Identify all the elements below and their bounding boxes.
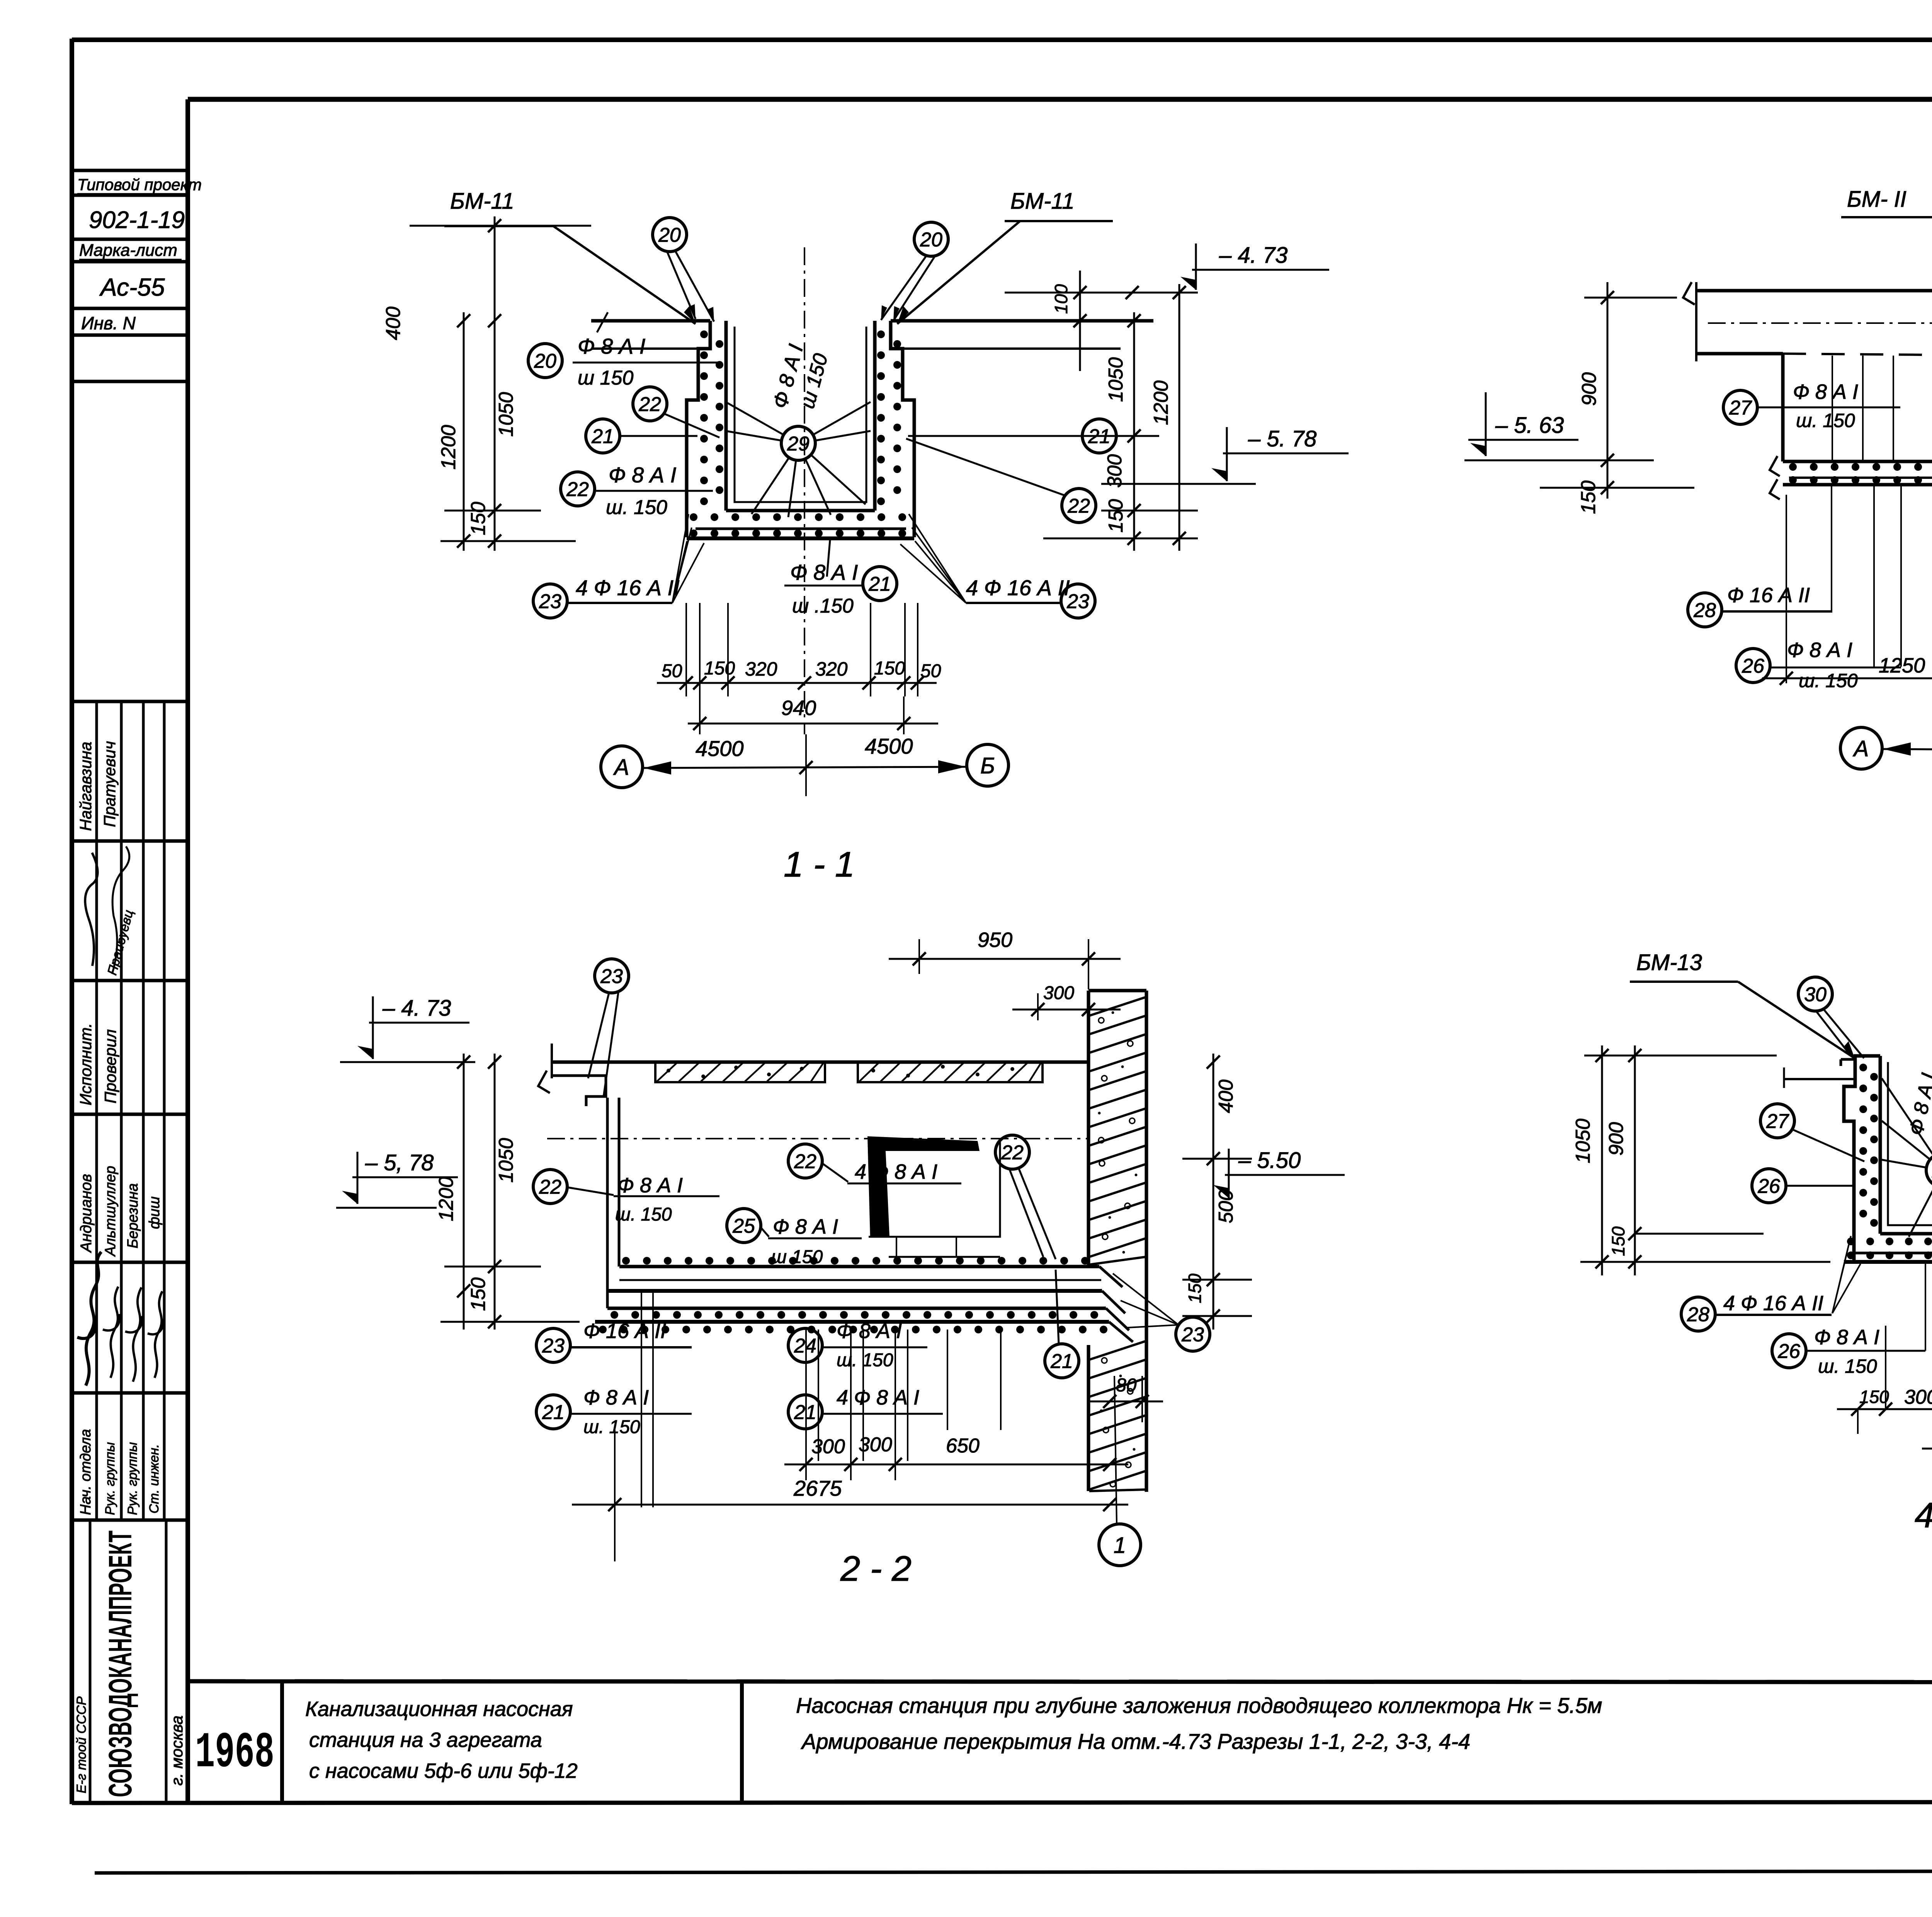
2-2 left ledge profile — [552, 1076, 606, 1106]
1-1 dim chain right 1050/300/150 — [1133, 312, 1135, 551]
outer border top — [72, 37, 1932, 42]
svg-text:Ас-55: Ас-55 — [99, 273, 165, 301]
svg-text:26: 26 — [1742, 655, 1764, 678]
4-4 dim 950 with axis 1 — [1922, 1448, 1932, 1450]
2-2 hatched precast strip A — [655, 1061, 825, 1082]
svg-text:Ф 16 А II: Ф 16 А II — [583, 1319, 666, 1343]
2-2 dots in lower band — [611, 1311, 618, 1319]
1-1 left level line at slab bottom — [440, 540, 576, 542]
svg-text:21: 21 — [542, 1401, 565, 1424]
4-4 slab bottom — [1844, 1260, 1932, 1264]
2-2 right wall outline — [1087, 991, 1090, 1267]
svg-text:4 Ф 16 А II: 4 Ф 16 А II — [1723, 1292, 1823, 1315]
svg-text:4500: 4500 — [865, 734, 913, 758]
4-4 channel floor — [1880, 1232, 1932, 1236]
svg-text:26: 26 — [1757, 1175, 1780, 1198]
svg-text:Марка-лист: Марка-лист — [79, 241, 177, 260]
svg-text:СОЮЗВОДОКАНАЛПРОЕКТ: СОЮЗВОДОКАНАЛПРОЕКТ — [102, 1531, 138, 1797]
svg-text:Рук. группы: Рук. группы — [125, 1442, 140, 1515]
2-2 left edge with break — [551, 1044, 553, 1078]
svg-text:150: 150 — [1608, 1226, 1628, 1256]
svg-text:Ф 8 А I: Ф 8 А I — [773, 1215, 838, 1238]
svg-text:Андрианов: Андрианов — [78, 1174, 95, 1253]
svg-text:4 Ф 8 А I: 4 Ф 8 А I — [837, 1386, 919, 1409]
svg-text:Е-г тоой СССР: Е-г тоой СССР — [74, 1696, 89, 1793]
4-4 inner mesh — [1888, 1062, 1932, 1225]
2-2 main slab lower band — [607, 1307, 1106, 1310]
svg-text:28: 28 — [1693, 599, 1716, 622]
3-3 legs below upper slab — [1831, 485, 1832, 613]
svg-text:21: 21 — [1050, 1350, 1073, 1373]
stamp signatures row 1 — [77, 852, 111, 966]
svg-text:320: 320 — [745, 658, 777, 680]
1-1 circle 22 upper-left — [633, 387, 667, 421]
2-2 circle 24 with label — [788, 1328, 822, 1362]
svg-text:2675: 2675 — [793, 1476, 842, 1500]
svg-text:23: 23 — [539, 591, 561, 613]
1-1 label 22 lower-left Ф8АI — [561, 472, 595, 506]
4-4 bottom dims 150/300/300/150 — [1857, 1409, 1859, 1434]
svg-text:ш. 150: ш. 150 — [1799, 670, 1858, 691]
1-1 top surface left — [591, 319, 710, 323]
svg-text:21: 21 — [591, 426, 614, 448]
svg-text:150: 150 — [1105, 499, 1127, 533]
4-4 left dim 1050 — [1601, 1045, 1603, 1275]
svg-text:23: 23 — [1181, 1324, 1204, 1346]
svg-text:БМ- II: БМ- II — [1847, 187, 1906, 212]
svg-text:300: 300 — [1904, 1386, 1932, 1408]
svg-text:300: 300 — [1104, 454, 1126, 488]
svg-text:22: 22 — [566, 478, 589, 501]
svg-text:30: 30 — [1804, 984, 1827, 1006]
svg-text:23: 23 — [600, 965, 623, 988]
svg-text:21: 21 — [794, 1401, 816, 1424]
svg-text:– 5. 63: – 5. 63 — [1495, 413, 1564, 438]
svg-text:Ф 8 А I: Ф 8 А I — [1814, 1326, 1879, 1349]
2-2 dim 300 top — [1037, 993, 1039, 1020]
1-1 circle 22 right — [1062, 489, 1096, 523]
svg-text:27: 27 — [1766, 1110, 1789, 1133]
svg-text:27: 27 — [1729, 397, 1752, 419]
svg-text:900: 900 — [1578, 372, 1600, 406]
svg-text:А: А — [613, 755, 629, 780]
1-1 dim chain left outer 1200 — [463, 312, 465, 551]
svg-text:Ф 8 А I: Ф 8 А I — [1787, 638, 1852, 662]
4-4 left wall outer profile — [1844, 1056, 1855, 1262]
svg-text:Насосная станция при глубин: Насосная станция при глубине заложения п… — [796, 1693, 1602, 1718]
1-1 rebar dots left wall — [700, 330, 708, 338]
1-1 dim chain left inner 400/1050/150 — [494, 216, 496, 551]
4-4 circle 28 left with label — [1681, 1297, 1715, 1331]
2-2 circle 21 right — [1045, 1344, 1079, 1378]
svg-text:902-1-19: 902-1-19 — [89, 207, 185, 233]
svg-text:1200: 1200 — [1150, 380, 1172, 425]
2-2 axis circle 1 — [1099, 1524, 1141, 1566]
1-1 slab bottom — [687, 536, 914, 540]
svg-text:150: 150 — [1577, 480, 1600, 514]
1-1 inner mesh — [735, 327, 866, 502]
3-3 upper slab rebar line — [1789, 477, 1932, 479]
inner frame top — [188, 97, 1932, 102]
svg-text:ш. 150: ш. 150 — [1818, 1355, 1877, 1377]
2-2 circle 21 left with label — [536, 1395, 570, 1429]
svg-text:23: 23 — [542, 1335, 565, 1357]
2-2 dim 950 top — [918, 939, 920, 974]
svg-text:4500: 4500 — [696, 736, 744, 761]
svg-text:Инв. N: Инв. N — [81, 313, 136, 333]
2-2 circle 22 right — [995, 1135, 1029, 1169]
svg-text:2 - 2: 2 - 2 — [840, 1549, 912, 1588]
svg-text:БМ-11: БМ-11 — [450, 189, 514, 214]
svg-text:400: 400 — [1215, 1079, 1237, 1113]
1-1 rebar dots right wall — [877, 330, 885, 338]
2-2 axis 1 projection vertical — [1114, 1376, 1117, 1523]
2-2 black bent bar — [867, 1136, 980, 1238]
4-4 slab rebar line — [1851, 1252, 1932, 1255]
3-3 dots upper slab — [1789, 463, 1797, 471]
svg-text:1200: 1200 — [437, 425, 460, 470]
1-1 top-left reference line — [410, 225, 591, 227]
svg-text:22: 22 — [794, 1151, 816, 1173]
svg-text:400: 400 — [382, 306, 405, 340]
svg-text:1200: 1200 — [435, 1176, 457, 1221]
svg-text:300: 300 — [811, 1435, 845, 1458]
svg-text:ш. 150: ш. 150 — [837, 1350, 893, 1371]
svg-text:ш. 150: ш. 150 — [583, 1417, 640, 1437]
1-1 circle 20 top-left — [653, 218, 687, 252]
1-1 right wall profile — [891, 321, 914, 537]
svg-text:4 Ф 16 А II: 4 Ф 16 А II — [576, 575, 680, 600]
3-3 wall left face below beam — [1781, 354, 1785, 461]
1-1 bottom dim line 50/150/320/320/150/50 — [657, 682, 937, 684]
stamp sub-column verticals — [95, 701, 98, 1520]
svg-text:50: 50 — [662, 661, 682, 681]
title block top line — [188, 1681, 1932, 1682]
svg-text:БМ-13: БМ-13 — [1636, 950, 1702, 975]
svg-text:– 4. 73: – 4. 73 — [382, 996, 451, 1021]
1-1 circle 21 right — [1082, 419, 1116, 453]
svg-text:А: А — [1853, 736, 1869, 761]
2-2 axis dash-dot — [547, 1138, 1087, 1139]
svg-text:Ф 8 А I: Ф 8 А I — [1793, 380, 1858, 403]
svg-text:ш. 150: ш. 150 — [615, 1204, 672, 1225]
svg-text:22: 22 — [1001, 1142, 1024, 1164]
3-3 dim 900 left — [1607, 282, 1609, 499]
svg-text:4 Ф 16 А II: 4 Ф 16 А II — [966, 575, 1070, 600]
2-2 hatched precast strip B — [858, 1061, 1043, 1082]
outer border bottom — [95, 1871, 1932, 1873]
svg-text:650: 650 — [946, 1435, 980, 1457]
svg-text:Армирование перекрытия На: Армирование перекрытия На отм.-4.73 Разр… — [801, 1729, 1470, 1754]
1-1 top surface right — [891, 319, 1153, 323]
svg-text:23: 23 — [1066, 591, 1089, 613]
4-4 left wall top hook — [1841, 1058, 1856, 1061]
3-3 bottom dim projections — [1786, 495, 1787, 683]
1-1 dim chain right 1200 — [1179, 284, 1180, 551]
2-2 main slab upper band — [619, 1265, 1099, 1268]
3-3 dim 150 left — [1601, 481, 1614, 494]
svg-text:24: 24 — [794, 1335, 816, 1357]
3-3 beam centerline — [1708, 322, 1932, 324]
4-4 step level line — [1784, 1078, 1854, 1080]
3-3 bottom dim line 1250/150/320/320/150 — [1762, 678, 1932, 679]
2-2 bottom dims 300 300 650 — [805, 1430, 807, 1480]
1-1 right wall inner face — [873, 321, 877, 511]
2-2 circle 23 right with fan — [1176, 1317, 1210, 1351]
svg-text:940: 940 — [781, 696, 816, 720]
svg-text:1968: 1968 — [195, 1725, 274, 1782]
4-4 dots slab — [1847, 1238, 1855, 1245]
3-3 rebar legs below beam — [1832, 356, 1833, 461]
svg-text:Ф 8 А I: Ф 8 А I — [583, 1386, 649, 1409]
svg-text:22: 22 — [638, 393, 661, 416]
svg-text:Рук. группы: Рук. группы — [103, 1442, 117, 1515]
svg-text:ш .150: ш .150 — [792, 595, 854, 617]
svg-text:Ф 8 А I: Ф 8 А I — [790, 560, 858, 584]
svg-text:Пратуевич: Пратуевич — [100, 741, 119, 827]
stamp signatures row 2 — [77, 1252, 101, 1386]
svg-text:Ф 8 А I: Ф 8 А I — [617, 1174, 683, 1197]
svg-text:ш 150: ш 150 — [578, 367, 633, 389]
stamp column row lines — [72, 169, 188, 172]
2-2 circle 25 with label — [727, 1209, 761, 1243]
1-1 label 21 bottom Ф8АI — [863, 567, 897, 601]
svg-text:900: 900 — [1605, 1122, 1628, 1156]
svg-text:Нач. отдела: Нач. отдела — [78, 1429, 94, 1515]
svg-text:1050: 1050 — [1105, 357, 1127, 402]
1-1 circle 20 top-right — [914, 222, 948, 256]
2-2 circle 23 left with label — [536, 1328, 570, 1362]
3-3 circle 28 left with label — [1688, 593, 1722, 627]
3-3 circle 26 left with label — [1736, 649, 1770, 683]
1-1 rebar dots slab — [690, 513, 697, 521]
svg-text:1050: 1050 — [495, 392, 517, 437]
svg-text:г. москва: г. москва — [168, 1716, 186, 1786]
1-1 left wall inner face — [724, 321, 728, 511]
svg-text:150: 150 — [874, 658, 905, 679]
svg-text:1050: 1050 — [495, 1138, 517, 1183]
svg-text:150: 150 — [1859, 1387, 1889, 1407]
4-4 circle 26 bottom with label — [1772, 1334, 1806, 1368]
svg-text:4 - 4: 4 - 4 — [1915, 1496, 1932, 1535]
2-2 dim 2675 — [614, 1430, 616, 1561]
svg-text:1 - 1: 1 - 1 — [784, 845, 855, 884]
2-2 circle 22 center with label — [788, 1144, 822, 1178]
svg-text:100: 100 — [1051, 284, 1071, 314]
title block dividers — [280, 1681, 284, 1802]
svg-text:станция на 3 агрегата: станция на 3 агрегата — [309, 1728, 542, 1752]
2-2 right dim chain 400/500/150 — [1213, 1054, 1214, 1330]
svg-text:22: 22 — [1067, 495, 1090, 518]
1-1 level line -4.73 — [1005, 292, 1198, 294]
svg-text:950: 950 — [978, 928, 1012, 952]
svg-text:1050: 1050 — [1572, 1119, 1594, 1163]
svg-text:Типовой проект: Типовой проект — [77, 175, 202, 194]
svg-text:Альтшуллер: Альтшуллер — [102, 1166, 119, 1257]
2-2 circle 22 left with label — [533, 1170, 567, 1204]
title block bottom line — [72, 1802, 1932, 1803]
svg-text:Ф 8 А I: Ф 8 А I — [609, 463, 676, 487]
svg-text:1250: 1250 — [1879, 654, 1925, 677]
svg-text:Ст. инжен.: Ст. инжен. — [147, 1444, 162, 1514]
3-3 circle 27 with label — [1723, 390, 1757, 424]
svg-text:300: 300 — [859, 1433, 892, 1456]
svg-text:Ф 8 А I: Ф 8 А I — [837, 1319, 902, 1343]
3-3 axis А-Б — [1840, 727, 1882, 769]
3-3 beam БМ-11 top — [1696, 289, 1932, 293]
2-2 top surface line — [552, 1061, 1088, 1064]
4-4 circle 29 center with fan — [1926, 1153, 1932, 1187]
svg-text:26: 26 — [1777, 1340, 1800, 1363]
svg-text:1: 1 — [1114, 1533, 1126, 1558]
svg-text:Найгавзина: Найгавзина — [77, 742, 95, 831]
svg-text:300: 300 — [1043, 983, 1074, 1003]
svg-text:150: 150 — [704, 658, 735, 679]
svg-text:Исполнит.: Исполнит. — [77, 1023, 95, 1105]
svg-text:ш. 150: ш. 150 — [606, 496, 667, 519]
1-1 axis line А-Б — [601, 746, 643, 788]
svg-text:50: 50 — [920, 661, 941, 681]
4-4 circle 26 left — [1752, 1169, 1786, 1203]
2-2 right wall hatch lower — [1089, 1341, 1146, 1360]
4-4 left wall inner face — [1879, 1056, 1882, 1234]
svg-text:150: 150 — [467, 1277, 490, 1311]
2-2 slab step into wall — [1099, 1267, 1122, 1287]
2-2 circle 21 center with label — [788, 1395, 822, 1429]
svg-text:150: 150 — [467, 502, 490, 535]
4-4 dots left wall — [1859, 1064, 1867, 1071]
svg-text:– 5. 78: – 5. 78 — [1248, 426, 1316, 451]
svg-text:4 Ф 8 А I: 4 Ф 8 А I — [855, 1160, 937, 1183]
2-2 right wall hatch upper — [1089, 997, 1146, 1016]
1-1 circle 21 left — [586, 419, 620, 453]
svg-text:Ф 8 А I: Ф 8 А I — [578, 334, 645, 358]
2-2 bar cage outline — [869, 1141, 1000, 1237]
svg-text:Ф 16 А II: Ф 16 А II — [1727, 584, 1810, 607]
1-1 dim 100 right — [1079, 271, 1081, 371]
svg-text:ш 150: ш 150 — [771, 1247, 823, 1267]
svg-text:– 5, 78: – 5, 78 — [365, 1150, 434, 1175]
svg-text:21: 21 — [868, 573, 891, 596]
2-2 circle 23 top with fan — [595, 959, 629, 993]
1-1 centerline — [804, 247, 805, 734]
1-1 dim 940 — [688, 723, 938, 725]
svg-text:22: 22 — [539, 1176, 561, 1199]
svg-text:20: 20 — [534, 350, 556, 373]
svg-text:80: 80 — [1116, 1375, 1137, 1396]
1-1 circle 29 center with fan — [781, 426, 815, 460]
4-4 circle 30 left — [1798, 977, 1832, 1011]
4-4 left wall top surface — [1854, 1054, 1880, 1058]
1-1 left wall profile — [687, 321, 710, 537]
svg-text:ш. 150: ш. 150 — [1796, 410, 1855, 431]
svg-text:28: 28 — [1687, 1304, 1709, 1326]
1-1 slab bottom rebar line — [696, 528, 906, 530]
svg-text:с насосами 5ф-6 или 5ф-12: с насосами 5ф-6 или 5ф-12 — [309, 1759, 578, 1783]
2-2 dim chains left — [463, 1054, 465, 1330]
1-1 label 20 left Ф8АI — [528, 344, 562, 378]
svg-text:Б: Б — [980, 753, 995, 778]
1-1 bottom dim projections — [685, 603, 687, 696]
svg-text:20: 20 — [658, 224, 681, 247]
svg-text:– 5.50: – 5.50 — [1238, 1148, 1301, 1173]
svg-text:29: 29 — [787, 433, 810, 455]
svg-text:Березина: Березина — [125, 1183, 141, 1248]
1-1 label 23 left 4Ф16АII — [533, 584, 567, 618]
svg-text:фиш: фиш — [146, 1197, 163, 1229]
svg-text:150: 150 — [1185, 1273, 1205, 1303]
svg-text:20: 20 — [920, 229, 942, 251]
svg-text:Канализационная насосная: Канализационная насосная — [305, 1697, 573, 1721]
4-4 left dim 900/150 — [1634, 1045, 1636, 1275]
3-3 upper slab — [1783, 460, 1932, 463]
1-1 channel floor — [726, 509, 875, 512]
2-2 left wall verticals — [606, 1098, 609, 1308]
svg-text:320: 320 — [815, 658, 848, 680]
outer border left vertical — [70, 39, 74, 1804]
stamp column right vertical — [185, 99, 190, 1804]
svg-text:Проверил: Проверил — [101, 1029, 119, 1103]
4-4 circle 27 left — [1760, 1104, 1794, 1138]
svg-text:25: 25 — [732, 1215, 755, 1238]
2-2 rebar legs below slab — [641, 1291, 642, 1507]
1-1 label 23 right 4Ф16АII — [1061, 584, 1095, 618]
svg-text:– 4. 73: – 4. 73 — [1219, 243, 1287, 268]
svg-text:БМ-11: БМ-11 — [1010, 189, 1075, 214]
2-2 dots above slab — [622, 1257, 630, 1265]
2-2 dots below lower band — [599, 1326, 607, 1333]
1-1 level line -5.78 — [1101, 483, 1256, 485]
